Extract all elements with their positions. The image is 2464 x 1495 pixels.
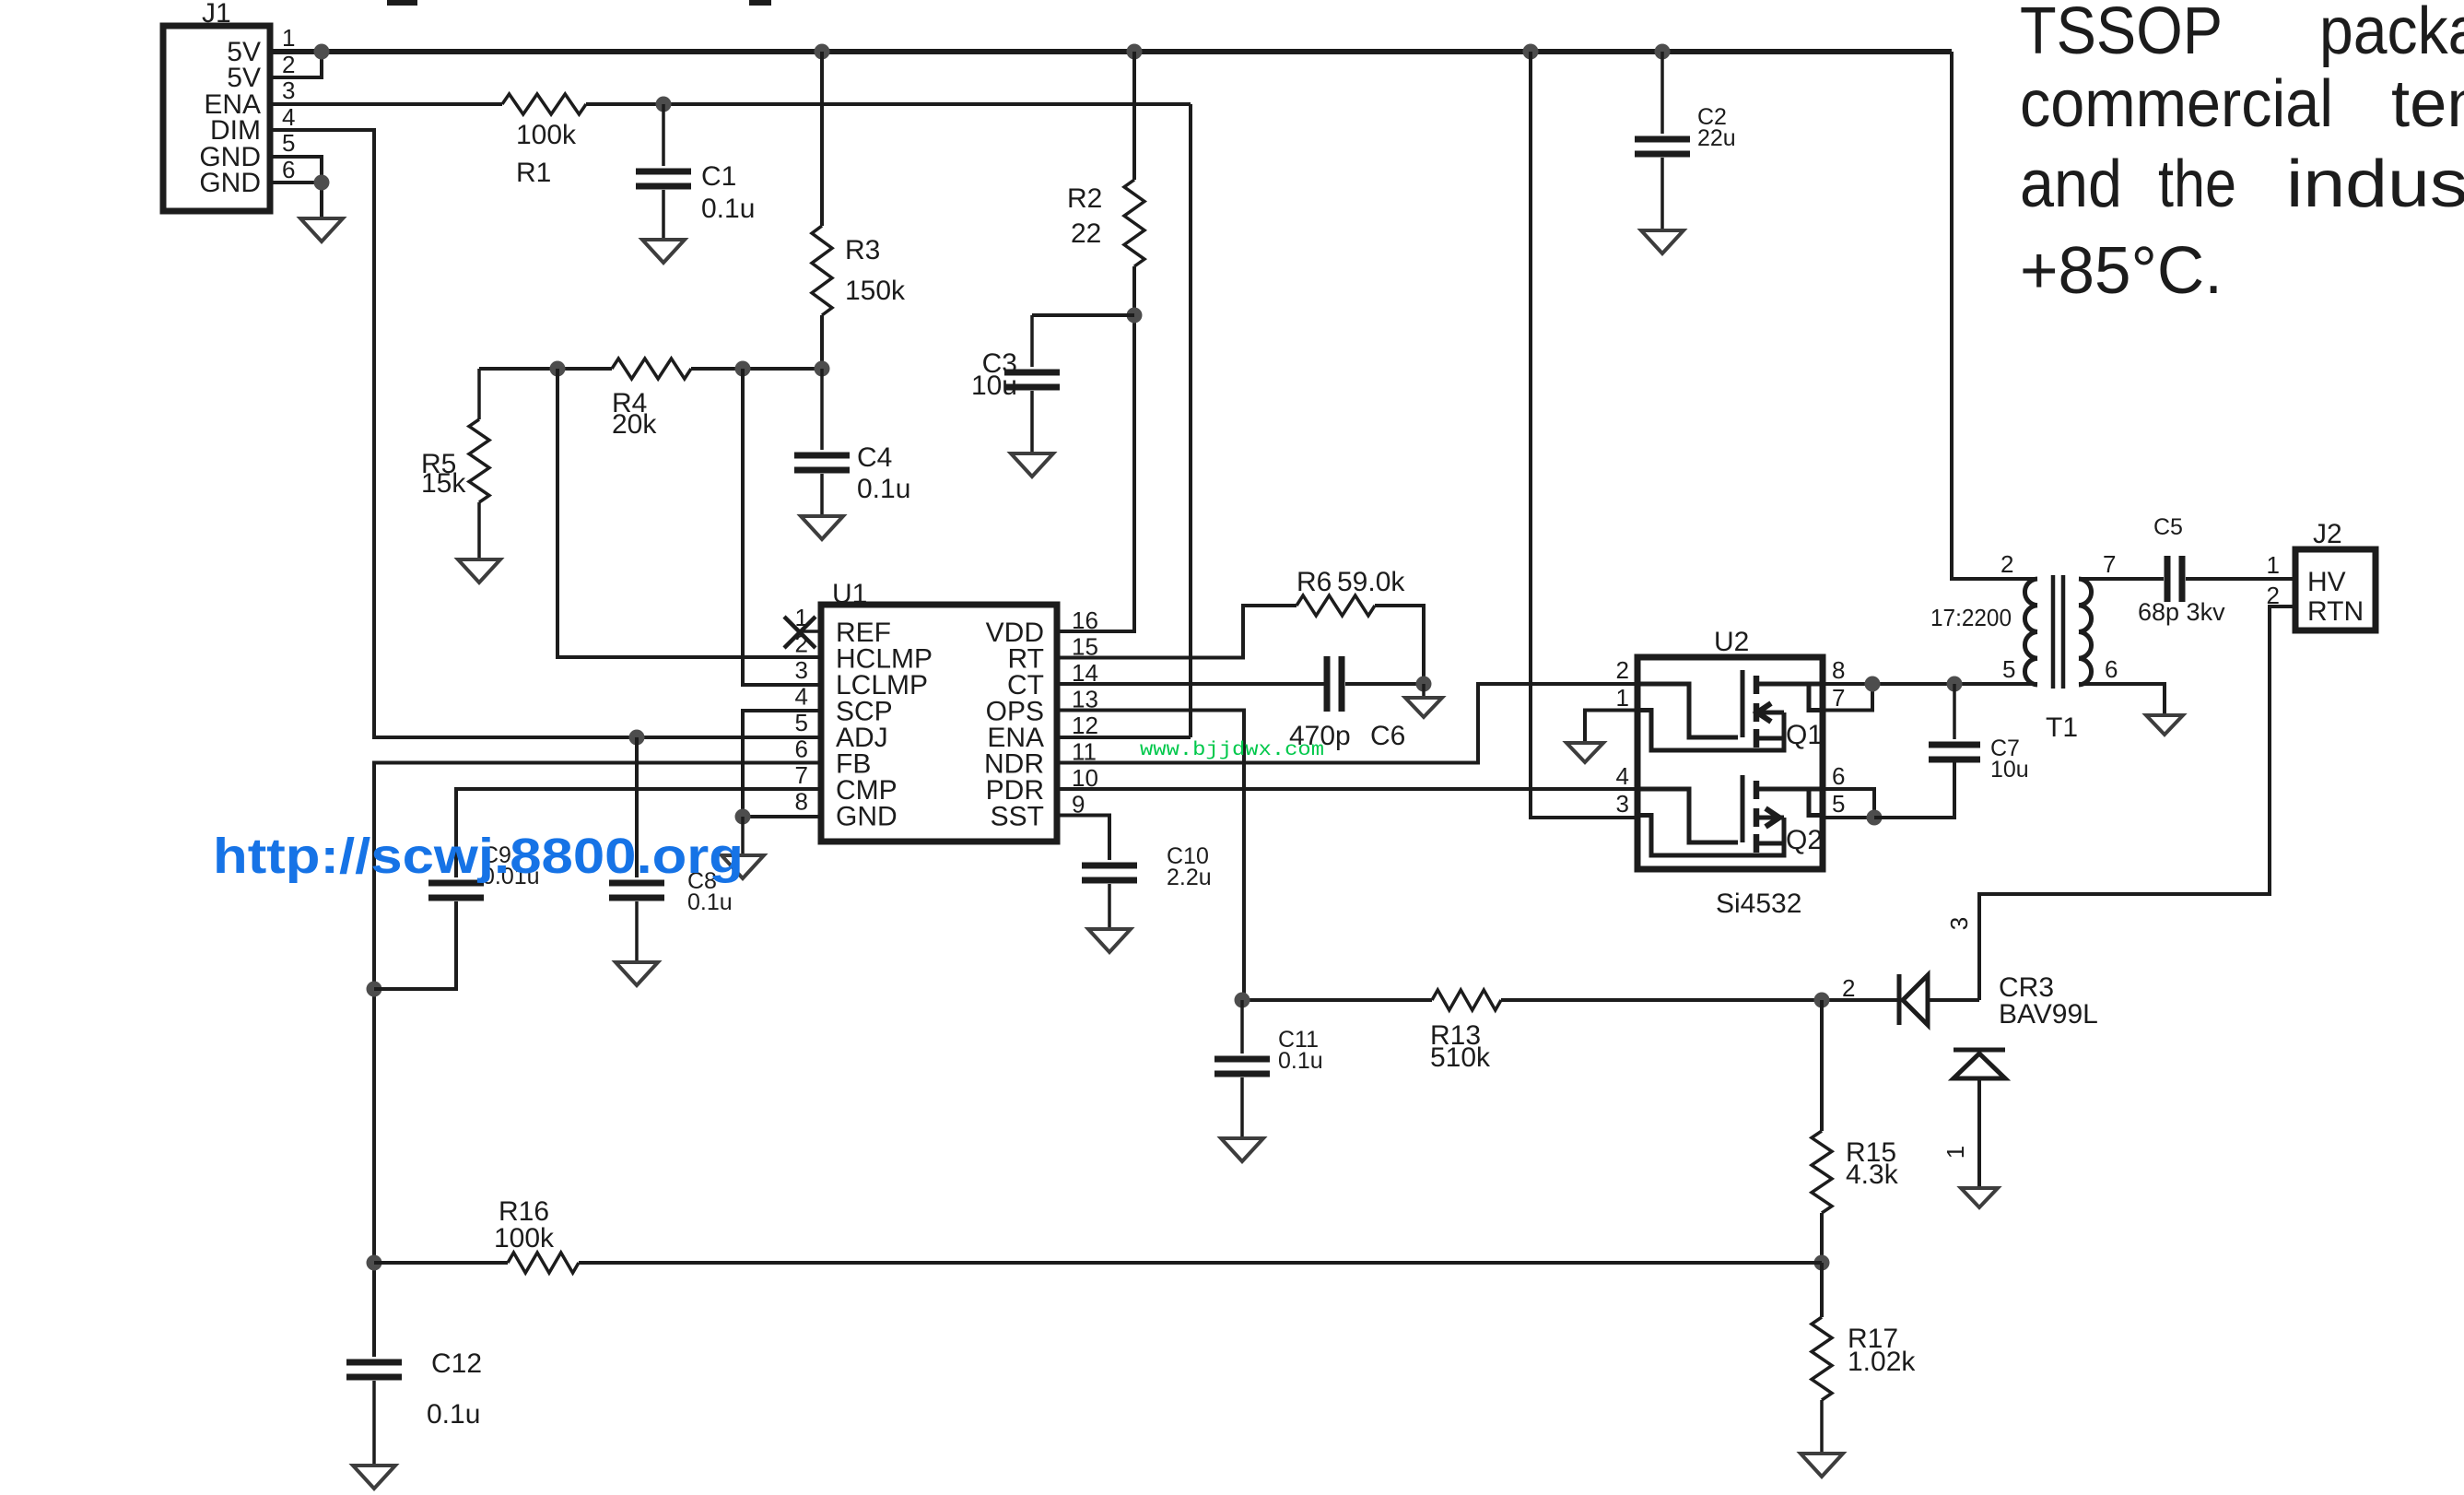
wire DIM to ADJ (270, 130, 821, 737)
node C7 top (1947, 677, 1963, 692)
wire rail to T1 pin2 (1952, 52, 2037, 579)
svg-text:1: 1 (282, 24, 295, 52)
wire CT (1057, 682, 1324, 686)
connector J2 (2267, 519, 2376, 630)
svg-text:0.1u: 0.1u (701, 194, 755, 224)
wire RT (1057, 606, 1297, 658)
svg-text:100k: 100k (516, 120, 577, 150)
svg-text:http://scwj.8800.org: http://scwj.8800.org (213, 829, 744, 884)
svg-text:R2: R2 (1067, 183, 1102, 214)
svg-text:10u: 10u (971, 371, 1017, 401)
wire 5V rail (270, 49, 1952, 54)
svg-text:6: 6 (795, 736, 808, 763)
wire J1 pin2 to rail (270, 52, 322, 77)
capacitor C3 (971, 315, 1134, 453)
svg-text:TSSOP: TSSOP (2020, 0, 2223, 68)
svg-text:7: 7 (795, 761, 808, 789)
svg-text:GND: GND (199, 168, 261, 198)
svg-text:Q1: Q1 (1786, 720, 1823, 750)
svg-text:U1: U1 (832, 579, 867, 609)
wire R3 to node (820, 315, 824, 369)
svg-text:HV: HV (2307, 567, 2346, 597)
wire SST (1057, 816, 1109, 861)
wire rail to R3 (820, 52, 824, 226)
svg-text:15k: 15k (421, 468, 466, 499)
svg-text:6: 6 (282, 156, 295, 183)
wire OPS (1057, 711, 1244, 1001)
svg-text:8: 8 (1832, 656, 1845, 684)
svg-text:6: 6 (2105, 655, 2118, 683)
resistor R15 (1812, 1000, 1899, 1263)
svg-text:2: 2 (1616, 656, 1629, 684)
no-connect REF pin1 (784, 617, 815, 648)
ground R5 (458, 559, 500, 583)
resistor R2 (1067, 180, 1144, 266)
node SCP-GND (735, 809, 751, 825)
svg-text:1: 1 (1616, 684, 1629, 712)
svg-text:J2: J2 (2313, 519, 2342, 549)
transistor Q2 (1637, 775, 1823, 855)
svg-text:10u: 10u (1990, 757, 2029, 783)
svg-text:8: 8 (795, 788, 808, 816)
svg-text:59.0k: 59.0k (1337, 567, 1405, 597)
svg-text:0.1u: 0.1u (857, 474, 910, 504)
svg-text:the: the (2158, 147, 2236, 221)
diode CR3b (1954, 1050, 2005, 1188)
transistor Q1 (1637, 670, 1823, 750)
wire C5 to J2 (2186, 577, 2295, 581)
capacitor C11 (1214, 1000, 1323, 1138)
wire U2 pin6 join (1823, 789, 1874, 818)
svg-text:22: 22 (1071, 218, 1101, 249)
svg-text:U2: U2 (1714, 627, 1749, 657)
node R15-R16-R17 (1814, 1255, 1830, 1271)
svg-text:BAV99L: BAV99L (1999, 999, 2098, 1030)
svg-text:4: 4 (1616, 762, 1629, 790)
svg-text:6: 6 (1832, 762, 1845, 790)
ground C10 (1088, 929, 1131, 952)
svg-text:R1: R1 (516, 158, 551, 188)
wire U1 GND pin (743, 815, 821, 818)
wire ENA vertical (1189, 104, 1192, 737)
capacitor C10 (1082, 843, 1212, 929)
capacitor C4 (794, 369, 910, 516)
node 2 (1814, 993, 1830, 1008)
svg-text:12: 12 (1072, 712, 1098, 739)
svg-text:C5: C5 (2153, 514, 2183, 540)
wire T1 pin6 gnd (2079, 684, 2165, 715)
capacitor C2 (1635, 52, 1736, 230)
svg-text:16: 16 (1072, 606, 1098, 634)
svg-text:temperature: temperature (2391, 67, 2464, 141)
capacitor C8 (609, 737, 733, 962)
ground C4 (801, 516, 843, 539)
wire FB to R16 (374, 1261, 508, 1265)
wire R16 to node (579, 1261, 1822, 1265)
capacitor C5 (2138, 514, 2225, 626)
text remnant top (387, 0, 417, 6)
node rail-U2pin3 (1523, 44, 1539, 60)
connector J1 (163, 0, 295, 211)
wire rail to R2 (1132, 52, 1136, 180)
node FB-R16 (367, 1255, 382, 1271)
svg-text:510k: 510k (1430, 1042, 1491, 1073)
svg-text:SST: SST (991, 802, 1044, 832)
svg-text:7: 7 (2103, 550, 2116, 578)
node J1 gnd (314, 175, 330, 191)
svg-text:R3: R3 (845, 235, 880, 265)
wire U2 pin1 gnd (1585, 711, 1637, 744)
svg-text:industrial: industrial (2286, 147, 2464, 221)
wire R5-R4 node line (479, 367, 612, 371)
svg-text:3: 3 (1616, 790, 1629, 818)
svg-text:5: 5 (282, 129, 295, 157)
resistor R3 (812, 226, 906, 315)
node C3 tap (1127, 308, 1143, 324)
svg-text:Si4532: Si4532 (1716, 889, 1801, 919)
svg-text:+85°C.: +85°C. (2020, 234, 2223, 308)
svg-text:20k: 20k (612, 409, 657, 440)
IC U1 (795, 579, 1098, 842)
ground T1 pin6 (2146, 715, 2183, 735)
node ADJ-C8 (629, 730, 645, 746)
wire ENA J1 pin3 (270, 102, 502, 106)
svg-text:68p 3kv: 68p 3kv (2138, 598, 2225, 626)
ground C1 (642, 240, 685, 263)
wire HCLMP (557, 369, 821, 657)
IC U2 (1616, 627, 1846, 919)
svg-text:22u: 22u (1697, 125, 1736, 151)
wire CMP (456, 789, 821, 877)
wire ENA into U1 pin12 (1057, 736, 1191, 739)
svg-text:www.bjjdwx.com: www.bjjdwx.com (1140, 740, 1324, 761)
ground C12 (353, 1466, 395, 1489)
svg-text:commercial: commercial (2020, 67, 2333, 141)
svg-text:Q2: Q2 (1786, 825, 1823, 855)
capacitor C1 (636, 104, 755, 240)
svg-text:150k: 150k (845, 276, 906, 306)
ground U1 GND (722, 855, 764, 878)
svg-text:and: and (2020, 147, 2122, 221)
wire rail to U2 pin3 (1531, 52, 1637, 818)
wire R1 to ENA corner (586, 102, 1191, 106)
svg-text:3: 3 (1945, 917, 1973, 930)
resistor R6 (1297, 567, 1405, 616)
svg-text:0.1u: 0.1u (1278, 1048, 1323, 1074)
svg-text:4: 4 (795, 683, 808, 711)
svg-text:4.3k: 4.3k (1846, 1160, 1899, 1190)
svg-text:17:2200: 17:2200 (1930, 604, 2012, 631)
transformer T1 (1930, 550, 2118, 743)
svg-text:5: 5 (1832, 790, 1845, 818)
capacitor C12 (346, 1348, 482, 1466)
wire U2 drain to T1 (1823, 682, 2037, 686)
wire J1 gnd pins (270, 157, 322, 218)
ground C8 (616, 962, 658, 985)
svg-text:C1: C1 (701, 161, 736, 192)
node rail-R2 (1127, 44, 1143, 60)
node rail-C2 (1655, 44, 1671, 60)
svg-text:2: 2 (1842, 974, 1855, 1002)
node U2 pins56 (1867, 810, 1883, 826)
node rail-R3 (815, 44, 830, 60)
wire NDR to Q1 gate (1057, 684, 1637, 763)
wire R4 to R3 node (691, 367, 822, 371)
svg-text:RTN: RTN (2307, 596, 2364, 627)
wire SCP to gnd (743, 711, 821, 817)
svg-text:0.1u: 0.1u (687, 889, 733, 915)
ground C3 (1011, 453, 1053, 477)
capacitor C7 (1929, 684, 2029, 783)
node C11 (1235, 993, 1250, 1008)
wire U2 pin5 (1823, 816, 1874, 819)
svg-text:T1: T1 (2046, 712, 2078, 743)
svg-text:3: 3 (282, 77, 295, 104)
svg-text:0.1u: 0.1u (427, 1399, 480, 1430)
svg-text:1: 1 (2267, 551, 2280, 579)
node R3-C4 (815, 361, 830, 377)
text TSSOP paragraph (2020, 0, 2464, 308)
svg-text:1: 1 (1942, 1146, 1969, 1159)
svg-text:C12: C12 (431, 1348, 482, 1379)
svg-text:2.2u: 2.2u (1167, 865, 1212, 890)
wire node2 to CR3 (1822, 998, 1897, 1002)
wire T1 pin7 to C5 (2079, 577, 2164, 581)
svg-text:4: 4 (282, 103, 295, 131)
svg-text:2: 2 (2001, 550, 2013, 578)
resistor R17 (1812, 1263, 1916, 1454)
wire R2 to VDD (1057, 266, 1134, 631)
wire gnd stub U1 (741, 817, 745, 855)
node C6-R6-gnd (1416, 677, 1432, 692)
ground R17 (1801, 1454, 1843, 1477)
svg-text:1.02k: 1.02k (1848, 1347, 1916, 1377)
resistor R5 (421, 369, 489, 559)
ground C2 (1641, 230, 1684, 253)
wire LCLMP (743, 369, 821, 685)
node FB-C9 (367, 982, 382, 997)
capacitor C6 (1289, 656, 1424, 751)
node C1 tap (656, 97, 672, 112)
ground CR3 (1961, 1188, 1998, 1207)
svg-text:R6: R6 (1297, 567, 1332, 597)
node R4-LCLMP (735, 361, 751, 377)
resistor R1 (502, 94, 586, 188)
ground C6 (1405, 698, 1442, 717)
wire U2 pin7 join (1823, 684, 1872, 711)
svg-text:2: 2 (282, 51, 295, 78)
node rail-J1 (314, 44, 330, 60)
node R4 left-HCLMP (550, 361, 566, 377)
wire R6 right (1375, 606, 1424, 685)
diode CR3a (1899, 974, 1979, 1025)
resistor R13 (1430, 990, 1501, 1073)
svg-text:GND: GND (836, 802, 898, 832)
node U2 pins78 (1865, 677, 1881, 692)
capacitor C9 (374, 842, 540, 989)
svg-text:3: 3 (795, 656, 808, 684)
wire C6 gnd stub (1422, 684, 1426, 698)
resistor R16 (494, 1196, 579, 1273)
svg-text:J1: J1 (202, 0, 231, 29)
svg-text:C6: C6 (1370, 721, 1405, 751)
wire pins56 to C7 (1874, 760, 1954, 818)
svg-text:100k: 100k (494, 1223, 555, 1254)
ground U2 pin1 (1566, 743, 1603, 762)
wire OPS node to R13 (1244, 998, 1432, 1002)
svg-text:5: 5 (795, 709, 808, 736)
wire R13 to node2 (1501, 998, 1822, 1002)
svg-text:5: 5 (2002, 655, 2015, 683)
ground C11 (1221, 1138, 1263, 1161)
wire FB (374, 763, 821, 1358)
svg-text:7: 7 (1832, 684, 1845, 712)
resistor R4 (612, 359, 691, 440)
wire J2 RTN down (1979, 606, 2295, 1000)
ground J1 (300, 218, 343, 241)
wire PDR to Q2 gate (1057, 787, 1637, 791)
svg-text:package: package (2319, 0, 2464, 68)
svg-text:C4: C4 (857, 442, 892, 473)
